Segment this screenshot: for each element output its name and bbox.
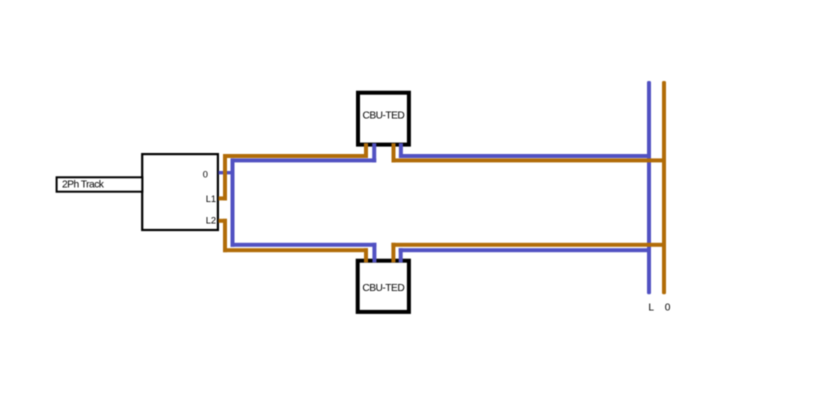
svg-text:2Ph Track: 2Ph Track: [62, 180, 105, 191]
svg-text:CBU-TED: CBU-TED: [362, 283, 404, 294]
wire N top-left horizontal: [231, 158, 377, 162]
wire L2 stub from terminal L2: [219, 219, 228, 223]
wire N bottom-left horizontal: [231, 243, 377, 247]
wire N riser at track box: [231, 158, 235, 246]
svg-text:L1: L1: [206, 194, 216, 204]
wire N stub into U2 left: [372, 243, 376, 263]
wire N stub out of U1 right: [399, 143, 403, 158]
wire L1 riser at track box: [223, 154, 227, 200]
wire L1 top-right horizontal: [392, 158, 667, 162]
wire L1 stub from terminal L1: [219, 196, 228, 200]
wire L2 stub out of U2 right: [391, 243, 395, 263]
svg-text:0: 0: [203, 169, 208, 179]
wire L1 stub out of U1 right: [392, 143, 396, 162]
wire L1 top-left horizontal: [223, 154, 368, 158]
svg-text:CBU-TED: CBU-TED: [363, 111, 405, 122]
wire L2 dropper at track box: [223, 219, 227, 252]
2Ph Track label box: [57, 177, 143, 191]
CBU-TED U1 box: [358, 93, 409, 145]
wire N stub out of U2 right: [399, 248, 403, 262]
svg-text:L: L: [648, 302, 654, 313]
wire N bottom-right horizontal: [399, 248, 651, 252]
wire L1 stub into U1 left: [364, 143, 368, 158]
svg-text:L2: L2: [206, 215, 216, 225]
CBU-TED U2 box: [358, 261, 409, 312]
wire N stub into U1 left: [372, 143, 376, 162]
wire N top-right horizontal: [399, 154, 651, 158]
track connector box: [142, 154, 218, 230]
svg-text:0: 0: [665, 302, 671, 313]
bus 0 vertical right: [662, 81, 666, 294]
bus L vertical right: [647, 81, 651, 294]
wire N stub from terminal 0: [219, 171, 235, 174]
wire L2 bottom-right horizontal: [391, 243, 666, 247]
wire L2 stub into U2 left: [364, 248, 368, 262]
wire L2 bottom-left horizontal: [223, 248, 368, 252]
